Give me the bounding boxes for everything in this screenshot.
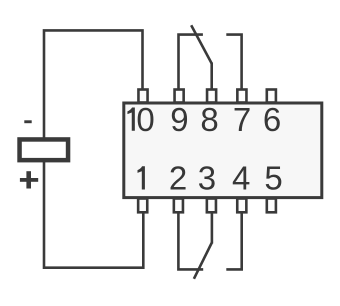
pin 2 stub: [174, 199, 183, 213]
wire pin 7 to switch S1 contact: [226, 35, 241, 90]
wire battery negative to pin 10: [44, 30, 143, 138]
wire pin 2 to switch S2 contact: [178, 212, 203, 269]
svg-text:4: 4: [232, 160, 250, 197]
svg-text:7: 7: [233, 101, 251, 138]
wire battery positive to pin 1: [44, 161, 143, 268]
wire pin 9 to switch S1 contact: [179, 35, 203, 90]
pin number 10: [127, 101, 154, 138]
svg-text:8: 8: [200, 101, 218, 138]
wire pin 3 to switch S2 pole: [211, 212, 214, 244]
pin number 1: [138, 166, 145, 189]
svg-text:2: 2: [169, 160, 187, 197]
pin 3 stub: [207, 199, 216, 213]
battery plus label: [20, 171, 38, 188]
wire pin 4 to switch S2 contact: [226, 212, 241, 269]
pin 9 stub: [175, 90, 184, 103]
IC U1 body: [124, 103, 322, 198]
svg-text:6: 6: [263, 101, 281, 138]
battery minus label: [24, 120, 31, 123]
switch S1 lever: [191, 25, 212, 63]
svg-text:0: 0: [136, 101, 154, 138]
pin 5 stub: [267, 199, 276, 213]
pin 7 stub: [237, 90, 246, 103]
pin 10 stub: [138, 90, 147, 103]
switch S2 lever: [194, 243, 212, 279]
pin 6 stub: [267, 90, 276, 103]
battery BT1: [20, 139, 69, 160]
pin 1 stub: [138, 199, 147, 213]
pin 4 stub: [237, 199, 246, 213]
svg-text:9: 9: [170, 101, 188, 138]
pin 8 stub: [207, 90, 216, 103]
svg-text:5: 5: [264, 160, 282, 197]
wire pin 8 to switch S1 pole: [210, 63, 213, 91]
svg-text:3: 3: [198, 160, 216, 197]
